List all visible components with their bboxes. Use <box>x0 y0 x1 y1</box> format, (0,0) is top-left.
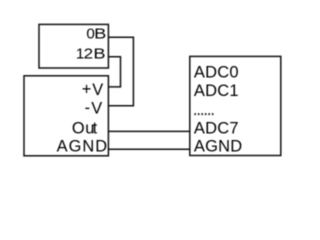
box U3 (ADC) <box>190 56 281 155</box>
svg-text:+V: +V <box>82 80 104 99</box>
wire 0B to -V <box>108 37 133 106</box>
svg-text:Out: Out <box>72 119 98 137</box>
svg-text:ADC7: ADC7 <box>194 120 239 138</box>
svg-text:0B: 0B <box>86 25 106 42</box>
box U2 (transducer +V/-V/Out/AGND) <box>24 76 108 156</box>
svg-text:ADC1: ADC1 <box>194 82 239 100</box>
box U1 (output range select 0B/12B) <box>39 24 108 68</box>
svg-text:ADC0: ADC0 <box>194 63 239 81</box>
svg-text:AGND: AGND <box>57 138 109 156</box>
svg-text:AGND: AGND <box>194 138 242 156</box>
wire Out to ADC7 <box>108 130 189 132</box>
wire AGND to AGND <box>108 148 189 150</box>
svg-text:12B: 12B <box>76 46 106 63</box>
svg-text:-V: -V <box>85 99 103 118</box>
svg-text:......: ...... <box>193 101 214 119</box>
wire 12B to +V <box>108 57 120 87</box>
